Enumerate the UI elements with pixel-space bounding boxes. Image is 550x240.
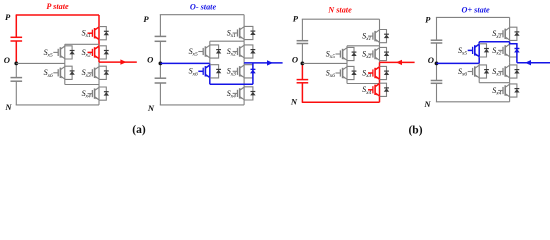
wire Sx3 emitter to node B (b1)	[379, 80, 381, 84]
highlighted free-wheel path through Dx2 (b2)	[510, 42, 520, 63]
transistor Sx6 (a2) IGBT body	[198, 65, 210, 78]
wire Sx3 emitter to node B (a2)	[243, 78, 245, 84]
svg-text:O: O	[4, 55, 10, 65]
wire O clamp bus (a2)	[160, 62, 209, 64]
wire C1-to-O (b1)	[301, 44, 303, 64]
wire Sx5 collector to node A (b1)	[346, 46, 348, 48]
wire output to Sx3 collector (b1)	[379, 62, 381, 66]
transistor Sx4 (b1) IGBT body	[368, 83, 380, 96]
wire DC rail P-to-C1 (b1)	[301, 19, 303, 41]
wire Sx6 emitter to node B (a1)	[64, 79, 66, 84]
wire Sx4 emitter to N bus (b2)	[509, 97, 511, 102]
wire Sx2 emitter to output (a1)	[98, 59, 100, 62]
output current arrow (b2)	[517, 62, 550, 64]
diode Dx6 (b2) anti-parallel branch	[479, 65, 489, 78]
capacitor C2 lower DC-link cap (b1)	[297, 80, 309, 83]
wire Sx3 emitter to node B (a1)	[98, 79, 100, 84]
wire node A to Sx2 collector (a2)	[243, 41, 245, 45]
diode Dx4 (b1) anti-parallel branch	[380, 83, 390, 96]
wire C2-to-N (b1)	[301, 83, 303, 103]
junction node O (a2)	[159, 62, 163, 66]
transistor Sx5 (a1) IGBT body	[53, 46, 65, 59]
diode Dx2 (b2) anti-parallel branch	[510, 44, 520, 57]
wire node A to Sx2 collector (b1)	[379, 46, 381, 48]
svg-text:P: P	[5, 12, 11, 22]
output current arrow (a2)	[244, 62, 283, 64]
svg-text:N: N	[4, 102, 12, 112]
wire Sx1-emitter to node A (a2)	[243, 40, 245, 42]
wire Sx2 emitter to output (b2)	[509, 57, 511, 63]
transistor Sx6 (b1) IGBT body	[336, 66, 348, 79]
wire O clamp bus (b1)	[302, 62, 347, 64]
wire N bus (a1)	[16, 104, 99, 106]
diode Dx1 (b2) anti-parallel branch	[510, 27, 520, 40]
diode Dx5 (b1) anti-parallel branch	[347, 47, 357, 60]
wire Sx1 collector drop (a1)	[98, 15, 100, 27]
wire Sx4 emitter to N bus (a1)	[98, 100, 100, 105]
wire Sx5 emitter to O (a2)	[209, 58, 211, 63]
diode Dx1 (a2) anti-parallel branch	[244, 26, 256, 39]
transistor Sx1 (a2) IGBT body	[233, 26, 245, 39]
transistor Sx3 (a2) IGBT body	[233, 65, 245, 78]
wire Sx6 emitter to node B (b2)	[478, 78, 480, 83]
wire Sx2 emitter to output (a2)	[243, 58, 245, 63]
svg-text:N: N	[423, 99, 431, 109]
wire node B to Sx4 collector (a2)	[243, 84, 245, 87]
diode Dx6 (b1) anti-parallel branch	[347, 66, 357, 79]
transistor Sx3 (a1) IGBT body	[88, 66, 100, 79]
wire C1-to-O (b2)	[436, 43, 438, 63]
wire node B clamp link (a2)	[210, 83, 253, 85]
wire node A to Sx2 collector (b2)	[509, 42, 511, 44]
wire node B to Sx4 collector (b1)	[379, 82, 381, 84]
wire O-to-C2 (b2)	[436, 63, 438, 80]
wire Sx4 emitter to N bus (a2)	[243, 100, 245, 105]
transistor Sx4 (a2) IGBT body	[233, 87, 245, 100]
wire P bus (b1)	[302, 18, 380, 20]
wire P bus (b2)	[436, 16, 510, 18]
wire node B clamp link (a1)	[65, 84, 99, 86]
capacitor C2 lower DC-link cap (a1)	[11, 78, 23, 82]
transistor Sx2 (b2) IGBT body	[498, 44, 510, 57]
capacitor C1 upper DC-link cap (b2)	[431, 40, 443, 43]
svg-text:(a): (a)	[132, 124, 146, 136]
wire Sx6 emitter to node B (b1)	[346, 80, 348, 84]
wire P bus (a1)	[16, 14, 99, 16]
wire Sx1-emitter to node A (b1)	[379, 43, 381, 46]
wire node B clamp link (b2)	[479, 82, 509, 84]
diode Dx3 (a2) anti-parallel branch	[244, 65, 256, 78]
junction node O (a1)	[14, 62, 18, 66]
transistor Sx1 (a1) IGBT body	[88, 27, 100, 40]
transistor Sx1 (b2) IGBT body	[498, 27, 510, 40]
wire Sx6 emitter to node B (a2)	[209, 78, 211, 84]
wire Sx5 collector to node A (a2)	[209, 41, 211, 45]
diode Dx3 (b2) anti-parallel branch	[510, 65, 520, 78]
wire O-to-C2 (a1)	[15, 63, 17, 77]
wire DC rail P-to-C1 (b2)	[436, 17, 438, 40]
wire C2-to-N (a2)	[159, 83, 161, 105]
wire O to Sx6 collector (a2)	[209, 63, 211, 64]
wire node A clamp link (b2)	[479, 41, 509, 43]
output current arrow (a1)	[99, 61, 137, 63]
wire O to Sx6 collector (b2)	[478, 63, 480, 65]
wire Sx3 emitter to node B (b2)	[509, 78, 511, 83]
svg-text:N state: N state	[327, 6, 352, 15]
transistor Sx2 (a2) IGBT body	[233, 45, 245, 58]
svg-text:O- state: O- state	[190, 3, 217, 12]
svg-text:P: P	[143, 14, 149, 24]
wire P bus (a2)	[160, 14, 244, 16]
wire Sx1-emitter to node A (b2)	[509, 40, 511, 41]
wire Sx1 collector drop (b2)	[509, 17, 511, 27]
transistor Sx5 (a2) IGBT body	[198, 45, 210, 58]
wire Sx1-emitter to node A (a1)	[98, 40, 100, 45]
capacitor C2 lower DC-link cap (a2)	[155, 78, 167, 83]
wire Sx5 emitter to O (b2)	[478, 57, 480, 63]
wire C1-to-O (a2)	[159, 41, 161, 63]
wire O to Sx6 collector (a1)	[64, 63, 66, 66]
wire node B to Sx4 collector (a1)	[98, 85, 100, 88]
transistor Sx3 (b2) IGBT body	[498, 65, 510, 78]
svg-text:O: O	[147, 55, 153, 65]
diode Dx3 (b1) anti-parallel branch	[380, 66, 390, 79]
wire DC rail P-to-C1 (a1)	[15, 15, 17, 37]
transistor Sx3 (b1) IGBT body	[368, 66, 380, 79]
diode Dx3 (a1) anti-parallel branch	[99, 66, 109, 79]
wire node B to Sx4 collector (b2)	[509, 83, 511, 84]
wire node B clamp link (b1)	[347, 83, 380, 85]
junction node O (b1)	[301, 62, 305, 66]
wire output to Sx3 collector (b2)	[509, 63, 511, 65]
svg-text:O: O	[428, 55, 434, 65]
wire O to Sx6 collector (b1)	[346, 63, 348, 66]
diode Dx6 (a2) anti-parallel branch	[210, 65, 222, 78]
wire node A clamp link (b1)	[347, 45, 380, 47]
svg-text:P state: P state	[46, 2, 69, 11]
wire N bus (a2)	[160, 104, 244, 106]
svg-text:N: N	[147, 103, 155, 113]
transistor Sx2 (b1) IGBT body	[368, 47, 380, 60]
svg-text:O+ state: O+ state	[462, 6, 490, 15]
wire C2-to-N (b2)	[436, 83, 438, 102]
wire O clamp bus (b2)	[437, 62, 480, 64]
transistor Sx2 (a1) IGBT body	[88, 46, 100, 59]
junction node O (b2)	[435, 62, 439, 66]
transistor Sx4 (a1) IGBT body	[88, 87, 100, 100]
wire C2-to-N (a1)	[15, 81, 17, 105]
transistor Sx1 (b1) IGBT body	[368, 30, 380, 43]
diode Dx2 (a2) anti-parallel branch	[244, 45, 256, 58]
transistor Sx6 (a1) IGBT body	[53, 66, 65, 79]
diode Dx2 (b1) anti-parallel branch	[380, 47, 390, 60]
wire O-to-C2 (a2)	[159, 63, 161, 78]
wire Sx2 emitter to output (b1)	[379, 61, 381, 63]
svg-text:O: O	[292, 55, 298, 65]
wire C1-to-O (a1)	[15, 41, 17, 63]
diode Dx4 (b2) anti-parallel branch	[510, 84, 520, 97]
diode Dx1 (b1) anti-parallel branch	[380, 30, 390, 43]
capacitor C1 upper DC-link cap (a1)	[11, 37, 23, 41]
wire N bus (b2)	[436, 101, 510, 103]
diode Dx4 (a2) anti-parallel branch	[244, 87, 256, 100]
svg-text:P: P	[293, 14, 299, 24]
wire Sx5 collector to node A (b2)	[478, 42, 480, 44]
wire node A clamp link (a2)	[210, 40, 244, 42]
wire Sx1 collector drop (b1)	[379, 19, 381, 29]
wire node A clamp link (a1)	[65, 43, 99, 45]
diode Dx1 (a1) anti-parallel branch	[99, 27, 109, 40]
wire Sx5 emitter to O (a1)	[64, 59, 66, 63]
wire N bus (b1)	[302, 101, 380, 103]
wire output to Sx3 collector (a2)	[243, 63, 245, 65]
transistor Sx5 (b1) IGBT body	[336, 47, 348, 60]
wire Sx5 collector to node A (a1)	[64, 44, 66, 46]
diode Dx5 (b2) anti-parallel branch	[479, 44, 489, 57]
wire node A to Sx2 collector (a1)	[98, 44, 100, 46]
wire O clamp bus (a1)	[16, 62, 65, 64]
svg-text:P: P	[425, 14, 431, 24]
diode Dx5 (a1) anti-parallel branch	[65, 46, 75, 59]
wire Sx5 emitter to O (b1)	[346, 61, 348, 64]
diode Dx6 (a1) anti-parallel branch	[65, 66, 75, 79]
wire Sx1 collector drop (a2)	[243, 15, 245, 27]
diode Dx2 (a1) anti-parallel branch	[99, 46, 109, 59]
wire O-to-C2 (b1)	[301, 63, 303, 79]
svg-text:N: N	[290, 96, 298, 106]
diode Dx5 (a2) anti-parallel branch	[210, 45, 222, 58]
capacitor C2 lower DC-link cap (b2)	[431, 81, 443, 84]
svg-text:(b): (b)	[408, 124, 422, 136]
output current arrow (b1)	[380, 61, 415, 63]
diode Dx4 (a1) anti-parallel branch	[99, 87, 109, 100]
transistor Sx5 (b2) IGBT body	[468, 44, 480, 57]
highlighted free-wheel path through Dx3 (a2)	[250, 63, 255, 84]
transistor Sx6 (b2) IGBT body	[468, 65, 480, 78]
wire DC rail P-to-C1 (a2)	[159, 15, 161, 37]
wire Sx4 emitter to N bus (b1)	[379, 96, 381, 102]
wire output to Sx3 collector (a1)	[98, 62, 100, 66]
transistor Sx4 (b2) IGBT body	[498, 84, 510, 97]
capacitor C1 upper DC-link cap (a2)	[155, 36, 167, 41]
capacitor C1 upper DC-link cap (b1)	[297, 41, 309, 44]
